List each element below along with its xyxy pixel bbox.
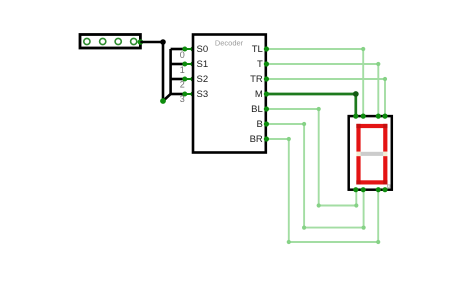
pin DIS1 top 1 (353, 114, 358, 119)
bendpoint (317, 107, 321, 111)
pin S0 (182, 47, 195, 52)
svg-text:TR: TR (250, 74, 263, 85)
pin U1.B (264, 121, 269, 126)
svg-text:0: 0 (180, 50, 185, 60)
label marker on display (387, 185, 390, 187)
wire TL to display pin 2 (light green) (266, 49, 363, 116)
svg-text:TL: TL (252, 44, 263, 55)
svg-text:S2: S2 (197, 74, 209, 85)
pin U1.BL (264, 106, 269, 111)
svg-text:3: 3 (180, 94, 185, 104)
wire bus to S pins (black) (171, 49, 185, 94)
svg-text:S1: S1 (197, 59, 209, 70)
segment corner overlaps (356, 124, 387, 185)
node wire end (160, 98, 166, 104)
svg-text:Decoder: Decoder (215, 39, 244, 48)
wire BL to display bottom pin 1 (light green) (266, 109, 356, 206)
bendpoint (302, 226, 306, 230)
bendpoint (376, 240, 380, 244)
wire BR to display bottom pin 3 (light green) (266, 139, 378, 242)
pin DIS1 top 3 (376, 114, 381, 119)
pin S3 (182, 92, 195, 97)
bendpoint (353, 91, 359, 97)
pin DIS1 bottom 1 (353, 187, 358, 192)
pin U1.TR (264, 76, 269, 81)
bendpoint (383, 77, 387, 81)
pin U1.BR (264, 136, 269, 141)
svg-text:S0: S0 (197, 44, 209, 55)
pin DIS1 bottom 3 (376, 187, 381, 192)
svg-text:BL: BL (251, 104, 263, 115)
7-segment display DIS1 (349, 116, 392, 190)
pin U1.T (264, 61, 269, 66)
segment bottom-left (lit) (356, 156, 360, 184)
svg-text:T: T (257, 59, 263, 70)
bendpoint (287, 137, 291, 141)
svg-text:BR: BR (250, 134, 263, 145)
pin U1.M (264, 91, 269, 96)
bendpoint (317, 203, 321, 207)
pin DIS1 bottom 4 (382, 187, 387, 192)
svg-text:2: 2 (180, 80, 185, 90)
connector J1 (4-pin header) (80, 35, 140, 49)
wire T to display pin 3 (light green) (266, 64, 378, 116)
bendpoint (376, 62, 380, 66)
svg-text:B: B (256, 119, 262, 130)
svg-text:M: M (255, 89, 263, 100)
bendpoint (287, 240, 291, 244)
bendpoint (354, 203, 358, 207)
wire header to bus (black) (140, 42, 170, 101)
wire B to display bottom pin 2 (light green) (266, 124, 363, 228)
pin J1.4 (138, 39, 144, 45)
pin U1.TL (264, 46, 269, 51)
bendpoint (302, 122, 306, 126)
bendpoint (362, 226, 366, 230)
segment bottom-right (lit) (383, 156, 387, 184)
svg-text:S3: S3 (197, 89, 209, 100)
pin S2 (182, 77, 195, 82)
wire M to display pin 1 (dark green) (266, 94, 355, 116)
junction bendpoint (160, 39, 166, 45)
pin DIS1 top 4 (382, 114, 387, 119)
pin DIS1 bottom 2 (361, 187, 366, 192)
bendpoint (361, 47, 365, 51)
segment middle (off, gray) (356, 152, 387, 156)
segment top-left (lit) (356, 124, 360, 152)
wire TR to display pin 4 (light green) (266, 79, 385, 116)
segment bottom (lit) (356, 180, 387, 184)
svg-text:1: 1 (180, 65, 185, 75)
pin DIS1 top 2 (361, 114, 366, 119)
segment top-right (lit) (383, 124, 387, 152)
pin S1 (182, 62, 195, 67)
decoder U1 (193, 35, 266, 153)
segment top (lit) (356, 124, 387, 128)
